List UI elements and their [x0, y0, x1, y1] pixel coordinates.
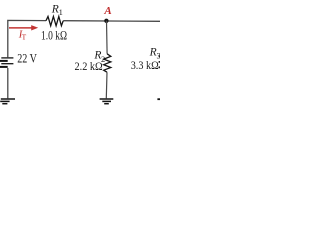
svg-text:1.0 kΩ: 1.0 kΩ [41, 28, 67, 42]
svg-text:1: 1 [59, 7, 63, 17]
svg-text:3.3 kΩ: 3.3 kΩ [131, 58, 159, 72]
svg-text:A: A [103, 5, 111, 17]
svg-text:R: R [149, 46, 157, 58]
svg-text:T: T [22, 33, 27, 42]
svg-text:22 V: 22 V [17, 52, 37, 66]
svg-text:2.2 kΩ: 2.2 kΩ [75, 59, 103, 73]
